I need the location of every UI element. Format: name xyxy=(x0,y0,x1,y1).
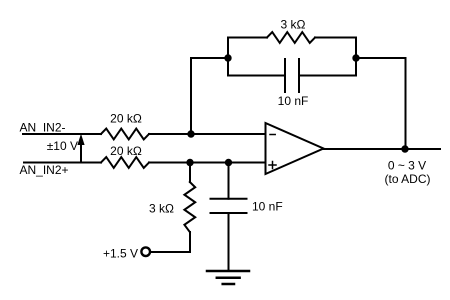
wire plus node to 3k resistor xyxy=(189,163,191,183)
wire 3k resistor bottom lead xyxy=(189,232,191,252)
svg-text:(to ADC): (to ADC) xyxy=(384,172,430,186)
wire feedback bottom branch right lead xyxy=(299,75,356,77)
terminal +1.5V circle xyxy=(141,247,150,256)
wire feedback loop right vertical xyxy=(355,38,357,76)
svg-text:AN_IN2-: AN_IN2- xyxy=(20,120,66,134)
wire AN_IN2- input to resistor xyxy=(23,133,101,135)
wire upper resistor to op-amp minus input xyxy=(149,133,266,135)
wire to +1.5V terminal xyxy=(151,251,191,253)
arrow +-10V vertical line xyxy=(80,142,82,163)
resistor R 3k bias vertical xyxy=(184,182,195,232)
junction node plus input right xyxy=(225,159,232,166)
ground symbol xyxy=(207,271,249,284)
wire feedback loop left vertical xyxy=(227,38,229,76)
svg-text:+1.5 V: +1.5 V xyxy=(103,247,138,261)
wire plus node to 10nF cap xyxy=(228,163,230,199)
wire AN_IN2+ input to resistor xyxy=(24,162,101,164)
wire feedback to output vertical xyxy=(405,58,407,149)
wire feedback top branch left lead xyxy=(228,37,267,39)
wire feedback tap vertical from minus input xyxy=(190,58,192,134)
wire feedback top branch right lead xyxy=(315,37,356,39)
op-amp plus pin mark xyxy=(269,162,276,169)
op-amp minus pin mark xyxy=(270,134,275,136)
resistor R 20k upper xyxy=(101,129,149,140)
wire 10nF cap to ground xyxy=(228,213,230,271)
wire feedback tap horizontal to loop xyxy=(191,57,228,59)
svg-text:10 nF: 10 nF xyxy=(252,200,283,214)
wire feedback to output horizontal xyxy=(356,57,406,59)
junction node minus input xyxy=(187,130,194,137)
svg-text:10 nF: 10 nF xyxy=(278,94,309,108)
resistor R 3k feedback xyxy=(267,32,315,43)
capacitor C 10nF bias top plate xyxy=(211,198,247,200)
junction node output xyxy=(401,145,408,152)
wire op-amp output xyxy=(324,148,441,150)
svg-text:20 kΩ: 20 kΩ xyxy=(110,144,142,158)
capacitor C 10nF feedback right plate xyxy=(298,59,300,92)
svg-text:AN_IN2+: AN_IN2+ xyxy=(20,163,69,177)
svg-text:±10 V: ±10 V xyxy=(47,139,78,153)
svg-text:20 kΩ: 20 kΩ xyxy=(110,112,142,126)
junction node feedback left xyxy=(224,54,231,61)
op-amp U1 xyxy=(266,123,324,174)
wire feedback bottom branch left lead xyxy=(228,75,285,77)
arrow +-10V head xyxy=(77,134,84,145)
resistor R 20k lower xyxy=(101,157,149,168)
capacitor C 10nF bias bottom plate xyxy=(211,212,247,214)
junction node plus input left xyxy=(186,159,193,166)
svg-text:3 kΩ: 3 kΩ xyxy=(149,202,174,216)
svg-text:0 ~ 3 V: 0 ~ 3 V xyxy=(388,159,426,173)
capacitor C 10nF feedback left plate xyxy=(284,59,286,92)
wire lower resistor to op-amp plus input xyxy=(149,162,266,164)
junction node feedback right xyxy=(352,54,359,61)
svg-text:3 kΩ: 3 kΩ xyxy=(281,17,306,31)
